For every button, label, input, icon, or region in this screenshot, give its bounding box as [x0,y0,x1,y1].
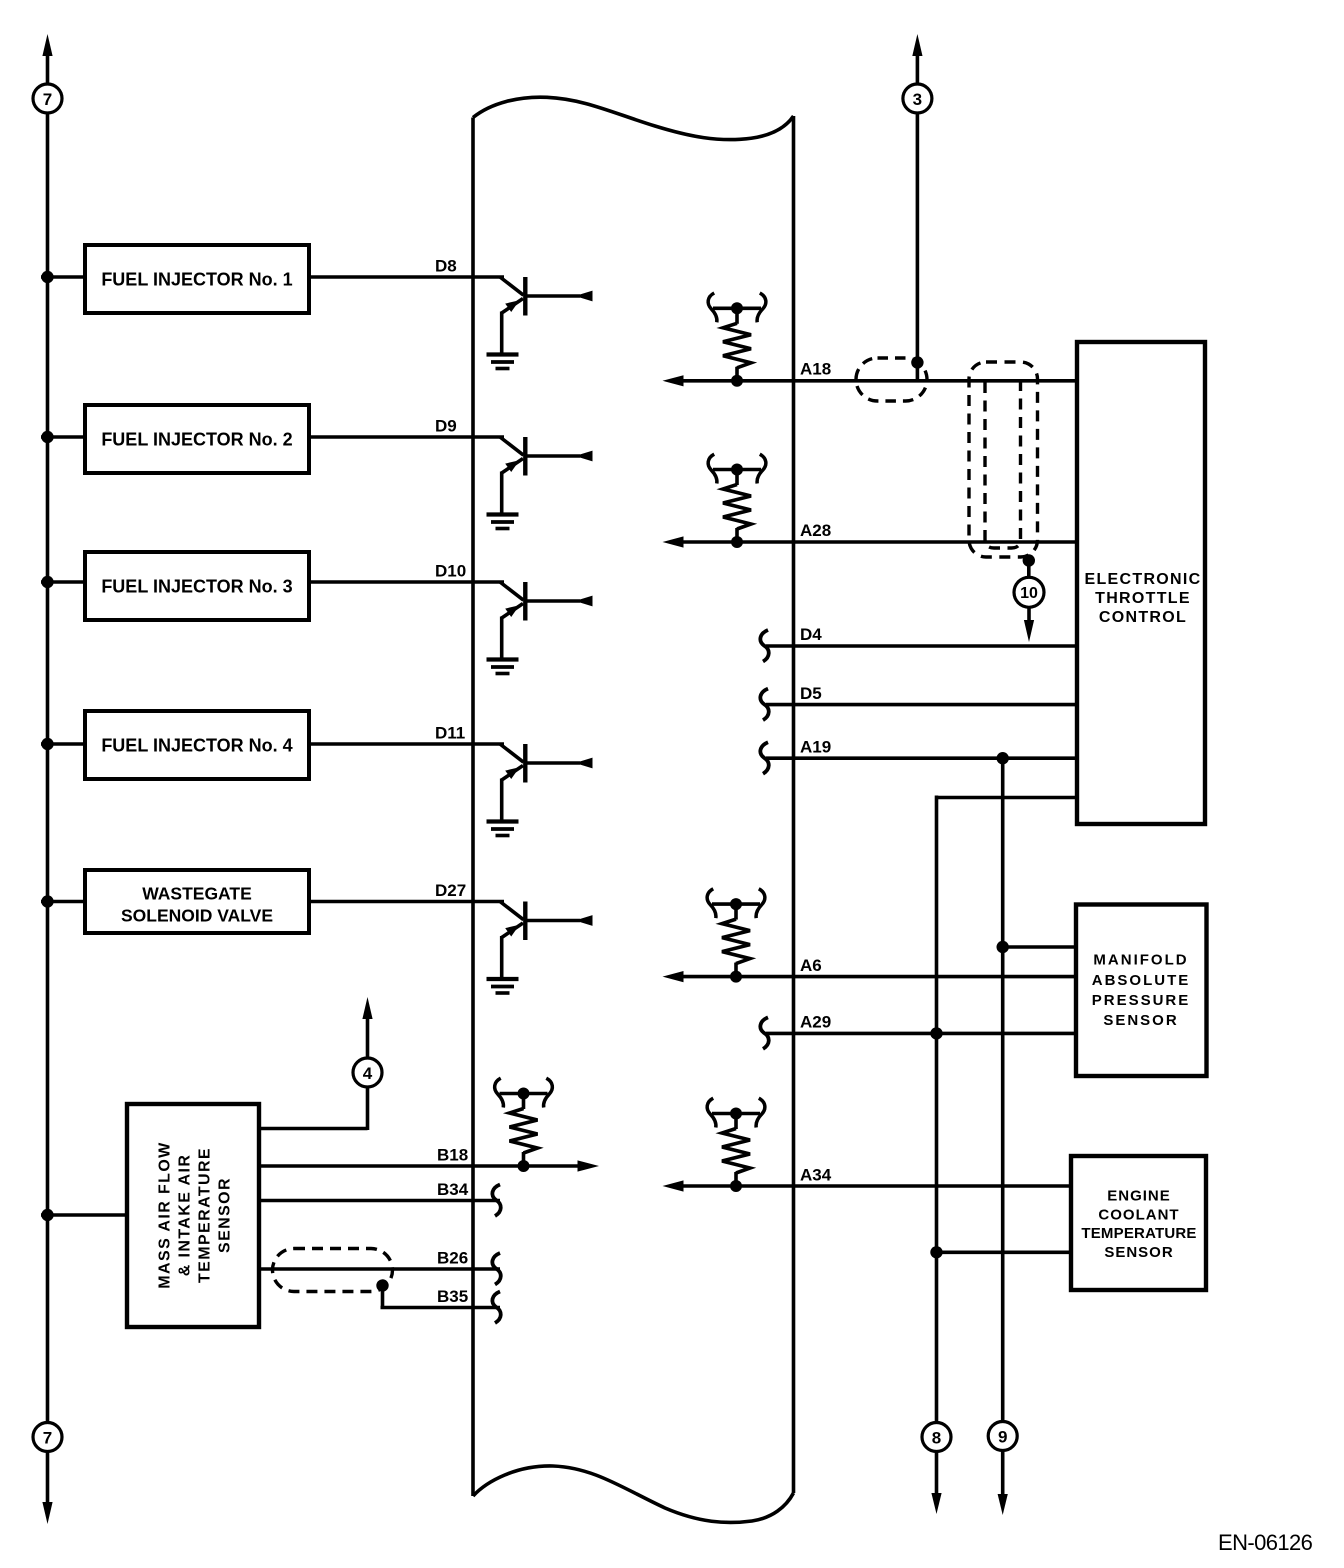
wire: bus to fuel injector 3 [41,580,85,584]
svg-text:ELECTRONIC: ELECTRONIC [1085,571,1202,588]
wire: shield drain to connector 10 [1027,561,1031,578]
ECM boundary left edge [471,118,475,1497]
svg-text:COOLANT: COOLANT [1098,1207,1179,1224]
wire: MAP supply pin [1003,945,1076,949]
wire: connector 8 arrow down [935,1452,939,1496]
node: junction on A19 [997,752,1009,764]
svg-text:SOLENOID VALVE: SOLENOID VALVE [121,906,273,926]
svg-text:7: 7 [43,1428,52,1447]
svg-text:CONTROL: CONTROL [1099,609,1187,626]
svg-text:B26: B26 [437,1249,468,1268]
component box: fuel injector 3 [85,552,309,620]
svg-text:B35: B35 [437,1287,468,1306]
svg-text:A29: A29 [800,1013,831,1032]
svg-text:TEMPERATURE: TEMPERATURE [1081,1225,1196,1242]
wire: ETC pin D5 [766,703,1077,707]
node: junction fuel injector 3 feed [41,576,53,588]
resistor R4 (pull-up on A34) [707,1098,765,1192]
node 7 (top connector circle) [33,84,62,113]
component box: fuel injector 4 [85,711,309,779]
svg-text:FUEL INJECTOR No. 2: FUEL INJECTOR No. 2 [101,430,292,450]
node: junction fuel injector 2 feed [41,431,53,443]
svg-text:4: 4 [363,1064,373,1083]
wire: connector 10 arrow down [1027,608,1031,624]
wire: ECT ground pin [937,1251,1072,1255]
svg-text:SENSOR: SENSOR [1103,1012,1178,1029]
wire: bus to fuel injector 4 [41,742,85,746]
wire: ETC pin A19 [766,756,1077,760]
wire: MAP pin A29 [766,1032,1076,1036]
wire: bus to fuel injector 2 [41,435,85,439]
node: junction MAF sensor feed [41,1209,53,1221]
shield around A18/A28 pair outer loop (dashed) [969,362,1038,557]
svg-text:FUEL INJECTOR No. 1: FUEL INJECTOR No. 1 [101,270,292,290]
wire: fuel injector 3 to ECM pin D10 [309,580,504,584]
svg-text:D11: D11 [435,724,465,743]
svg-text:7: 7 [43,90,52,109]
wire: connector 4 arrow up [366,1019,370,1058]
svg-text:D5: D5 [800,684,822,703]
node: junction sensor ground / ECT [930,1246,942,1258]
resistor R5 (pull-up on B18) [495,1078,553,1172]
wire: shield drain to B35 [381,1286,385,1308]
resistor R3 (pull-up on A6) [707,889,765,983]
wire: bus to MAF sensor [41,1213,127,1217]
node 7 (bottom connector circle) [33,1423,62,1452]
node: shield tap on A18 wire [911,356,923,368]
ECM boundary right edge [792,116,796,1493]
wire break at B34 [492,1185,500,1217]
wire break at A19 [760,742,768,774]
wire: MAF power pin to connector 4 [259,1127,368,1131]
node: shield drain junction on B26 shield [376,1279,388,1291]
ECM torn bottom edge [473,1466,794,1523]
svg-text:MANIFOLD: MANIFOLD [1093,952,1188,969]
node 10 (connector circle) [1014,577,1044,607]
node: junction fuel injector 1 feed [41,271,53,283]
wire: ETC/MAP pin A6 [682,975,1076,979]
transistor Q2 (injector driver) [487,437,593,529]
svg-text:THROTTLE: THROTTLE [1095,590,1191,607]
ECM torn top edge [473,97,794,139]
component box: fuel injector 1 [85,245,309,313]
shield around B26 wire (dashed) [273,1249,393,1292]
arrow left on A6 [663,971,684,982]
wire: left power bus vertical [46,113,50,1423]
svg-text:SENSOR: SENSOR [1104,1244,1173,1261]
arrow left on A28 [663,536,684,547]
node 3 (connector circle) [903,84,932,113]
arrow left on A34 [663,1180,684,1191]
node: junction wastegate feed [41,895,53,907]
transistor Q3 (injector driver) [487,582,593,674]
wire: MAF signal B34 [259,1199,500,1203]
wire: connector 3 arrow up [912,34,922,56]
wire: left power bus arrow up [42,34,52,56]
svg-text:A18: A18 [800,360,831,379]
wire: connector 3 down to A18 [916,113,920,381]
component box: electronic throttle control [1077,342,1205,824]
svg-text:10: 10 [1020,585,1038,602]
shield around A18/A28 pair inner loop (dashed) [985,382,1021,548]
svg-text:FUEL INJECTOR No. 4: FUEL INJECTOR No. 4 [101,736,292,756]
svg-text:FUEL INJECTOR No. 3: FUEL INJECTOR No. 3 [101,577,292,597]
wire break at D5 [760,689,768,721]
svg-text:D10: D10 [435,562,466,581]
wire: left power bus arrow down [46,1452,50,1505]
svg-text:A19: A19 [800,738,831,757]
wire break at D4 [760,630,768,662]
svg-text:8: 8 [932,1428,941,1447]
wire: wastegate to ECM pin D27 [309,900,504,904]
component box: fuel injector 2 [85,405,309,473]
wire: MAF signal B26 [259,1267,500,1271]
node 9 (connector circle) [988,1422,1017,1451]
wire: fuel injector 4 to ECM pin D11 [309,742,504,746]
wire break at A29 [760,1017,768,1049]
shield around A18 wire (dashed) [856,358,927,401]
node: junction supply / MAP sensor [997,941,1009,953]
wire: connector 9 arrow down [1001,1451,1005,1497]
wire: A19 sensor supply vertical [1001,758,1005,1421]
arrow right on B18 [578,1160,600,1171]
svg-text:WASTEGATE: WASTEGATE [142,884,252,904]
transistor Q5 (wastegate driver) [487,902,593,994]
svg-text:3: 3 [913,90,922,109]
wire: ETC pin A18 [682,379,1077,383]
svg-text:A6: A6 [800,956,822,975]
resistor R2 (pull-up on A28) [708,454,766,548]
svg-text:D27: D27 [435,881,466,900]
wire: ETC pin D4 [766,644,1077,648]
wire: fuel injector 2 to ECM pin D9 [309,435,504,439]
node 8 (connector circle) [922,1423,951,1452]
node: pair shield drain junction [1023,554,1035,566]
component box: engine coolant temperature sensor [1071,1156,1206,1290]
wire: fuel injector 1 to ECM pin D8 [309,275,504,279]
transistor Q1 (injector driver) [487,277,593,369]
svg-text:A34: A34 [800,1166,832,1185]
svg-text:B34: B34 [437,1180,469,1199]
transistor Q4 (injector driver) [487,744,593,836]
wire: ECT pin A34 [682,1184,1071,1188]
svg-text:9: 9 [998,1427,1007,1446]
svg-text:B18: B18 [437,1146,468,1165]
svg-text:D4: D4 [800,625,822,644]
wire break at B35 [492,1292,500,1324]
svg-text:A28: A28 [800,521,831,540]
svg-text:D9: D9 [435,417,457,436]
component box: manifold absolute pressure sensor [1076,905,1207,1077]
node: junction fuel injector 4 feed [41,738,53,750]
svg-text:PRESSURE: PRESSURE [1092,992,1191,1009]
arrow left on A18 [663,375,684,386]
component box: mass air flow & intake air temperature sensor [127,1104,259,1327]
node: junction sensor ground / A29 [930,1027,942,1039]
wire: bus to fuel injector 1 [41,275,85,279]
svg-text:ABSOLUTE: ABSOLUTE [1092,972,1191,989]
node 4 (connector circle) [353,1058,382,1087]
resistor R1 (pull-up on A18) [708,293,766,387]
component box: wastegate solenoid valve [85,870,309,933]
wire: ETC pin A28 [682,540,1077,544]
wire: ETC ground pin to sensor ground bus [937,796,1078,800]
svg-text:D8: D8 [435,257,457,276]
wire: bus to wastegate solenoid valve [41,900,85,904]
svg-text:ENGINE: ENGINE [1107,1188,1171,1205]
svg-text:EN-06126: EN-06126 [1218,1530,1313,1555]
wire: MAF signal B18 [259,1164,579,1168]
wire break at B26 [492,1253,500,1285]
